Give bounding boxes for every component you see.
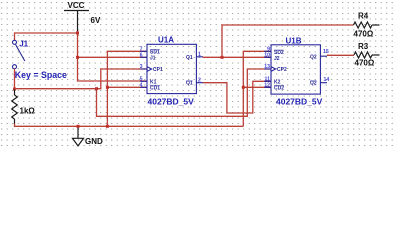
- pin stubs U1B right: [320, 56, 327, 82]
- wire VCC to U1A J1: [78, 56, 148, 58]
- svg-text:470Ω: 470Ω: [354, 30, 374, 39]
- wire U1B CD2 tap: [243, 86, 271, 88]
- op U1B flip-flop box: [264, 37, 329, 107]
- svg-text:470Ω: 470Ω: [355, 59, 375, 68]
- svg-text:13: 13: [264, 64, 270, 70]
- svg-text:CP2: CP2: [277, 67, 287, 73]
- node ground stem junction: [77, 125, 80, 128]
- op U1A flip-flop box: [140, 36, 203, 107]
- svg-text:4: 4: [140, 82, 143, 88]
- wire CD1 tap: [107, 86, 147, 88]
- VCC symbol: [64, 1, 89, 31]
- svg-text:CP1: CP1: [153, 67, 163, 73]
- node Q1 branch junction: [221, 56, 224, 59]
- svg-text:Q2: Q2: [310, 54, 317, 60]
- svg-text:J2: J2: [274, 56, 280, 62]
- node VCC-J1 junction: [76, 56, 79, 59]
- node clock branch junction: [95, 87, 98, 90]
- resistor R2 1kOhm: [12, 90, 36, 125]
- resistor R4: [354, 12, 380, 39]
- svg-text:3: 3: [140, 64, 143, 70]
- svg-text:R4: R4: [358, 12, 369, 21]
- resistor R3: [354, 42, 380, 68]
- svg-text:1kΩ: 1kΩ: [20, 107, 36, 116]
- svg-text:CD1: CD1: [150, 85, 160, 91]
- svg-text:2: 2: [198, 78, 201, 84]
- wire ground riser to U1B SD2: [243, 51, 271, 126]
- pin stubs U1A right: [196, 57, 203, 83]
- svg-text:4027BD_5V: 4027BD_5V: [276, 97, 323, 107]
- svg-text:Q1: Q1: [186, 55, 193, 61]
- svg-text:Key = Space: Key = Space: [15, 70, 67, 80]
- node CD1 junction: [106, 86, 109, 89]
- svg-text:15: 15: [323, 49, 329, 55]
- wire Q1 to U1B J2: [203, 56, 271, 58]
- wire nQ1 to U1B K2: [203, 81, 271, 113]
- wire VCC to switch top: [15, 33, 78, 40]
- clock triangle U1A: [147, 67, 152, 72]
- wire Q1 up to R4: [222, 25, 354, 57]
- wire 1k bottom to ground rail: [15, 124, 244, 127]
- svg-text:Q1: Q1: [186, 81, 193, 87]
- wire clock branch down to U1B CP2: [97, 69, 272, 116]
- grid dots: [1, 2, 393, 146]
- wire clock horizontal to CP1 riser: [15, 69, 148, 89]
- node CD2 junction: [242, 86, 245, 89]
- svg-text:12: 12: [264, 82, 270, 88]
- wire switch bottom to clock node: [14, 69, 16, 89]
- node VCC-switch junction: [76, 32, 79, 35]
- wire Q2 to R3: [327, 54, 354, 56]
- svg-text:J1: J1: [19, 39, 28, 48]
- svg-text:J1: J1: [150, 55, 156, 61]
- svg-text:10: 10: [264, 52, 270, 58]
- svg-text:Q2: Q2: [310, 81, 317, 87]
- svg-text:4027BD_5V: 4027BD_5V: [148, 97, 195, 107]
- switch J1: [13, 39, 29, 68]
- svg-text:VCC: VCC: [68, 1, 85, 10]
- svg-text:6: 6: [140, 52, 143, 58]
- svg-text:U1A: U1A: [158, 36, 174, 45]
- node riser on ground rail: [106, 125, 109, 128]
- pin stubs U1A left: [140, 51, 147, 87]
- svg-text:GND: GND: [85, 137, 103, 146]
- wire VCC vertical to K1 row: [78, 31, 148, 81]
- pin stubs U1B left: [264, 51, 271, 87]
- svg-text:14: 14: [324, 77, 330, 83]
- svg-text:6V: 6V: [91, 16, 101, 25]
- node clock junction at 1k top: [13, 88, 16, 91]
- wire SD1 CD1 ground riser: [107, 51, 147, 126]
- svg-text:R3: R3: [358, 42, 369, 51]
- ground symbol: [73, 126, 104, 146]
- svg-text:CD2: CD2: [274, 85, 284, 91]
- svg-text:1: 1: [198, 52, 201, 58]
- clock triangle U1B: [271, 67, 276, 72]
- svg-text:U1B: U1B: [286, 37, 302, 46]
